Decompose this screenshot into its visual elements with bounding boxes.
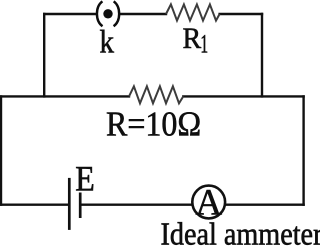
svg-text:1: 1 — [200, 29, 208, 58]
svg-text:E: E — [75, 160, 95, 199]
svg-text:R: R — [183, 22, 202, 55]
svg-text:Ideal ammeter: Ideal ammeter — [161, 216, 320, 246]
svg-text:R=10Ω: R=10Ω — [106, 106, 201, 144]
svg-text:k: k — [99, 24, 114, 60]
